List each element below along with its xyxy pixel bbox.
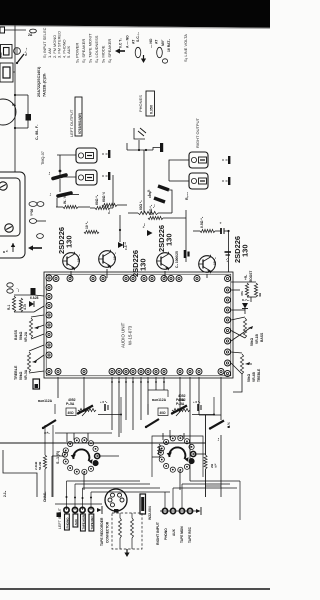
wire [5,30,33,37]
wire [67,481,171,492]
PCB pin bottom 3 [109,369,115,375]
label chassis [43,491,47,502]
wire [185,210,187,262]
PCB pin top 4 [100,276,106,282]
bass pot label right [250,332,264,346]
switch S1 power [16,47,28,64]
terminal [0,182,7,190]
wire [67,481,92,510]
note sc [136,32,140,42]
label 4052 PL-6A right [176,394,186,402]
label aux r [172,528,176,536]
capacitor line filter [14,48,21,55]
wire [147,377,149,415]
wire [199,414,221,416]
PCB pin left 1 [46,275,52,281]
right speaker plug [222,177,230,185]
label Q2 value [113,252,117,260]
wire [143,150,145,213]
svg-text:BASS: BASS [14,329,18,340]
terminal [5,224,13,232]
wire [54,404,56,414]
svg-text:BOOST: BOOST [249,271,253,282]
resistor in network [119,518,122,538]
svg-text:60Ω *₉: 60Ω *₉ [139,200,143,210]
svg-text:S₃ TAPE MONIT: S₃ TAPE MONIT [88,33,93,63]
svg-text:16 RAT₀: 16 RAT₀ [167,39,171,52]
diode D bass [29,296,39,307]
label C801 [35,124,39,140]
audio unit PCB outline [44,272,233,378]
PCB pin bottom 12 [187,369,193,375]
wire [189,377,191,481]
PCB pin bottom 6 [130,369,136,375]
svg-text:10 *₄: 10 *₄ [213,257,217,265]
PCB pin bottom 5 [123,369,129,375]
svg-text:5. AUX: 5. AUX [66,45,71,58]
note small oval [162,59,167,63]
svg-text:40Ω: 40Ω [68,411,75,415]
PCB pin bottom 11 [177,369,183,375]
svg-text:VR-3A: VR-3A [24,369,28,380]
svg-text:S₄ LOUDNESS: S₄ LOUDNESS [94,35,99,63]
svg-text:RIGHT OUTPUT: RIGHT OUTPUT [195,118,200,148]
PCB pin top 12 [194,276,200,282]
resistor R 60ohm [95,194,110,209]
wire color oval (BL) [29,219,46,224]
capacitor C801 [15,114,31,128]
diode D2 [142,223,153,236]
PCB pin top 2 [67,276,73,282]
svg-text:+₀₆: +₀₆ [142,223,146,228]
wire [55,503,102,505]
wire [163,430,184,440]
bass pot label [14,329,28,342]
svg-text:MVᵀ: MVᵀ [161,39,165,46]
wire [140,377,142,420]
wire [163,377,165,390]
svg-text:60Ω *₉: 60Ω *₉ [95,194,99,205]
wire [126,143,128,150]
svg-text:AUX: AUX [172,528,176,536]
svg-text:10 *₆: 10 *₆ [85,221,89,229]
pilot lamp [0,99,17,125]
transistor Q3 2SD226 [157,252,174,271]
resistor Rv [7,296,16,312]
wire main vertical [205,415,207,497]
right speaker jack J3 [189,152,208,168]
wire [165,484,182,508]
wire [57,176,76,178]
AC outlet box [0,63,13,82]
wire [190,480,240,482]
svg-text:130: 130 [139,258,148,271]
black component [31,288,36,295]
note 16 rat [167,39,171,52]
PCB pin right 2 [225,297,231,303]
svg-text:VR-2A: VR-2A [24,331,28,342]
chassis cap [57,513,62,518]
wire [193,230,230,232]
wire [160,510,196,512]
PCB pin top 8 [149,276,155,282]
svg-text:½ᵂ: ½ᵂ [214,463,218,468]
svg-text:VR-1B: VR-1B [255,333,259,344]
PCB pin left 3 [46,294,52,300]
resistor in network [131,518,134,538]
svg-text:130: 130 [165,233,174,246]
svg-text:CONNECTOR: CONNECTOR [106,521,110,543]
label tape rec r [188,526,192,543]
wire [180,180,189,182]
PCB pin top 11 [176,276,182,282]
svg-text:S₈ LINE VOLTA: S₈ LINE VOLTA [183,34,188,62]
wire [152,456,161,458]
resistor 2ohm [204,455,218,469]
PCB pin right 3 [225,307,231,313]
svg-text:Pₗ-6A: Pₗ-6A [176,398,185,402]
svg-text:TAPE REC: TAPE REC [188,526,192,543]
svg-text:ʙᴀʜ112A: ʙᴀʜ112A [152,398,167,402]
supply arrow [28,245,42,250]
phones jack contacts [134,128,146,139]
fuse F1 [30,29,37,33]
label Ry [185,192,189,200]
enclosure box right wafer [152,436,203,477]
svg-text:Nₚ: Nₚ [12,103,17,107]
label W22-004 [148,506,152,520]
phones jack box label [146,91,155,116]
input terminal R1 [162,508,167,513]
treble pot label [14,365,28,380]
svg-text:TAPE MON: TAPE MON [81,515,85,530]
resistor 47k B [254,283,262,297]
wire [206,485,222,487]
PCB pin left 6 [46,322,52,328]
svg-text:ʙᴀʜ112A: ʙᴀʜ112A [38,399,53,403]
PCB pin right 1 [225,287,231,293]
svg-text:C₄ 88₀ F₇: C₄ 88₀ F₇ [35,124,39,140]
input terminal L2 [72,507,77,512]
PCB pin top 7 [141,276,147,282]
legend S8 line voltage [183,34,188,62]
terminal label PHONO [65,514,70,530]
wire [107,175,113,214]
capacitor C 1000/25 [175,250,189,268]
svg-text:50kΩ: 50kΩ [247,373,251,382]
tape recorder DIN socket [105,489,127,513]
legend S1 POWER [75,43,80,63]
wire [127,149,153,151]
PCB pin top 9 [161,276,167,282]
switch S speaker R [209,421,231,430]
wire [173,484,237,488]
label 4052 PL-5A [66,398,76,406]
input terminal R4 [187,508,192,513]
svg-text:0.C T₀: 0.C T₀ [119,38,123,48]
svg-text:4Ω: 4Ω [258,292,262,297]
phones plug [153,143,163,152]
wire [15,94,28,96]
capacitor C output left [47,155,79,207]
wire [71,269,207,278]
wire [231,282,256,302]
label 2-18 [3,490,7,497]
resistor 4.7k [19,298,27,312]
terminal arrow [97,506,102,514]
transistor Q1 2SD226 [63,252,80,271]
PCB pin right 4 [225,317,231,323]
svg-text:W22-004: W22-004 [148,506,152,520]
label 40 right boxed [158,408,168,416]
wire [55,432,112,434]
input terminal L3 [80,507,85,512]
svg-text:2A: 2A [28,33,33,37]
wire [56,206,90,208]
PCB pin right 9 [225,371,231,377]
svg-text:40Ω: 40Ω [160,411,167,415]
svg-text:60Ω ½: 60Ω ½ [102,192,106,202]
svg-text:RIGHT INPUT: RIGHT INPUT [156,521,160,545]
capacitor C right edge [225,252,232,262]
svg-text:50kΩ: 50kΩ [250,337,254,346]
resistor R 100 [102,192,117,207]
wire [29,345,44,373]
resistor 47k A [240,283,249,297]
PCB pin top 3 [90,276,96,282]
label a [3,248,8,254]
wire [163,217,186,219]
wire [179,377,181,408]
left speaker plug [102,150,110,158]
terminal label AUX [73,514,78,527]
resistor R 0.5ohm [200,216,215,232]
switch S4-1 loudness [77,406,93,415]
label YR08 [30,209,34,216]
svg-text:0.5Ω *₈: 0.5Ω *₈ [200,216,204,228]
wire [31,315,44,339]
svg-text:TREBLE: TREBLE [257,368,261,382]
wire [13,71,15,73]
label Q4 value [213,257,217,265]
wire [147,404,149,414]
label BA4112A right [152,398,186,406]
note line2 [149,38,153,48]
svg-text:VR-4B: VR-4B [252,371,256,382]
wire [128,212,172,214]
wire [192,397,215,416]
svg-text:S.C. ₗ₀: S.C. ₗ₀ [136,32,140,42]
wire [169,167,180,181]
svg-text:56.2Ω: 56.2Ω [38,461,42,470]
wire [98,455,120,457]
rotary switch S7-2 wafer [158,436,196,473]
AC plug box [0,45,12,59]
wire color ovals [7,283,20,293]
svg-text:50kΩ: 50kΩ [19,331,23,340]
junction ticks [111,381,165,383]
svg-text:0.₅: 0.₅ [107,210,111,214]
legend 5.AUX [66,45,71,58]
wire [169,190,172,213]
input terminal R3 [179,508,184,513]
svg-text:AUX: AUX [74,519,78,525]
svg-text:S₂ SPEAKER: S₂ SPEAKER [81,39,86,63]
svg-text:S₁ᵇ ~₂: S₁ᵇ ~₂ [24,47,28,56]
legend 1.AM [47,48,52,58]
terminal label TAPE MON [81,514,86,531]
svg-text:+Rᵥ: +Rᵥ [244,274,248,280]
svg-text:Rᵥ1: Rᵥ1 [7,305,11,310]
resistor R 60ohm mid [138,200,158,215]
transistor Q2 2SD226 [99,250,116,269]
power transformer T1 box [0,178,20,236]
capacitor C+ [219,222,224,234]
svg-text:C₄ 1000/25: C₄ 1000/25 [175,251,179,268]
legend S3 TAPE MONITOR [88,33,93,63]
svg-text:TAPE MON: TAPE MON [180,526,184,543]
svg-text:W₁ ½: W₁ ½ [63,195,67,204]
svg-text:6 A28: 6 A28 [30,296,39,300]
svg-text:50kΩ: 50kΩ [19,371,23,380]
wire [179,470,181,490]
wire [138,140,140,150]
PCB pin left 7 [46,332,52,338]
volume pot left VR [78,405,96,416]
svg-text:130: 130 [65,235,74,248]
capacitor C coupling L [100,400,108,411]
wire [220,377,222,420]
svg-text:+: + [219,222,223,224]
legend S6 SPEAKER [107,39,112,63]
PCB pin bottom 10 [161,369,167,375]
wire [228,231,230,272]
left speaker jack J2 [76,170,97,185]
PCB pin bottom 1 [55,369,61,375]
treble pot VR-4B [240,354,250,374]
label 40 boxed [66,408,76,416]
svg-text:47k: 47k [240,291,244,296]
wire [231,317,250,341]
svg-text:CO: CO [0,52,3,57]
svg-text:9763/9014(W): 9763/9014(W) [78,113,82,134]
wire [83,472,85,490]
wire [117,204,127,206]
PCB pin top 5 [123,276,129,282]
label S7-1 [56,450,60,464]
wire [11,243,15,252]
svg-text:10 *₄: 10 *₄ [113,252,117,260]
input terminal L4 [88,507,93,512]
label right input [156,521,160,545]
label BA4112A [38,399,53,403]
wire color oval (WH) [29,202,44,207]
svg-text:60Ω *₆: 60Ω *₆ [149,204,153,215]
svg-text:CHAS₃: CHAS₃ [43,491,47,502]
resistor at wafer [158,444,161,457]
wire [57,154,76,156]
svg-text:TMQ-07: TMQ-07 [41,151,45,165]
wire [119,215,121,242]
svg-text:Pₗ-5A: Pₗ-5A [66,402,75,406]
wire [14,295,44,312]
wire [83,377,85,412]
resistor R emitter [84,221,99,234]
wire [132,377,134,430]
dashed resistor network box [112,513,142,549]
wire [14,98,16,172]
left output label [69,109,74,137]
svg-text:2SA722(2SC1401): 2SA722(2SC1401) [37,66,41,97]
svg-text:TREBLE: TREBLE [14,365,18,380]
resistor R W1 [63,195,78,208]
bottom page edge line [0,588,270,590]
wire [194,453,206,455]
note no signal [126,35,130,48]
legend S7 input selector [42,27,47,58]
PCB pin top 13 [225,276,231,282]
svg-text:AUDIO UNIT: AUDIO UNIT [121,322,126,348]
PCB pin top 6 [130,276,136,282]
transistor Q4 2SD226 [199,255,216,274]
svg-text:7A/22B₃(C)28₇: 7A/22B₃(C)28₇ [43,72,47,97]
input terminal L1 [64,507,69,512]
label tape mon r [180,526,184,543]
label +5 [216,437,220,441]
note at [132,39,136,44]
svg-text:TAPE RECORDER: TAPE RECORDER [100,517,104,546]
PCB pin left 8 [46,342,52,348]
wire [239,481,241,520]
connector W22-004 [140,494,146,514]
treble pot VR-3A [27,352,37,372]
legend S5 MODE [101,45,106,63]
wire [220,435,222,497]
PCB pin bottom 4 [116,369,122,375]
wire [155,377,157,390]
svg-text:TAPE REC: TAPE REC [90,516,94,530]
wire color oval [37,234,44,239]
resistor 56.2k [34,455,47,470]
wire [52,425,54,497]
svg-text:S₁ POWER: S₁ POWER [75,43,80,63]
wire [180,159,189,161]
resistor R 60ohm upper [148,204,163,219]
PCB pin bottom 7 [138,369,144,375]
svg-text:A — NO: A — NO [126,35,130,48]
svg-text:+.5 *₉: +.5 *₉ [100,400,108,404]
svg-text:PHONO: PHONO [164,528,168,540]
label 100u [152,204,156,208]
transistor types label [37,66,47,97]
left speaker jack J1 [76,148,97,163]
svg-text:LEFT INPUT: LEFT INPUT [58,507,62,529]
right speaker plug [222,156,230,164]
enclosure corner [3,450,37,497]
PCB pin bottom 8 [145,369,151,375]
wire bus [0,442,206,444]
PCB pin bottom 2 [81,369,87,375]
terminal label TAPE REC [89,514,94,531]
wire [231,309,245,315]
diode D right [242,298,250,309]
svg-text:K-7₀₂: K-7₀₂ [242,298,250,302]
black scan border band (top) [0,0,270,29]
note oval symbol [135,47,141,57]
bass pot VR-2A [29,318,39,338]
svg-text:+.5 *₉: +.5 *₉ [193,400,201,404]
PCB pin top 1 [53,276,59,282]
